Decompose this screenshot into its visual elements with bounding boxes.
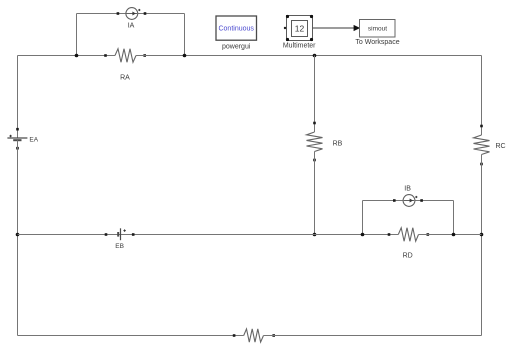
IA plus mark (138, 9, 140, 11)
wire: IA loop right vertical (184, 14, 186, 56)
wire: left rail upper (to EA) (17, 56, 19, 139)
dc voltage source EB (118, 228, 120, 240)
wire: IB loop top left segment (363, 200, 404, 202)
junction: IB loop right on middle rail (452, 233, 456, 237)
label RD (403, 253, 413, 260)
wire: RB branch upper (314, 56, 316, 133)
wire: RB branch lower (314, 152, 316, 235)
svg-text:simout: simout (368, 26, 387, 33)
resistor RD (398, 228, 418, 241)
signal arrowhead (354, 25, 361, 31)
current measurement IA (circle with arrow) (126, 8, 138, 20)
wire: IB loop top right segment (415, 200, 454, 202)
junction: RB branch on top rail (313, 54, 317, 58)
port dot RC bottom (480, 163, 483, 166)
svg-text:RB: RB (333, 140, 343, 147)
wire: IA loop top right segment (138, 13, 185, 15)
multimeter input port dot (284, 27, 286, 29)
label EA (29, 137, 38, 144)
junction: IA loop right on top rail (183, 54, 187, 58)
label EB (115, 243, 124, 250)
port dot IA right (144, 12, 147, 15)
wire: left rail lower (EA to bottom) (17, 140, 19, 335)
multimeter corner handle bottom-right (310, 38, 313, 41)
svg-text:IB: IB (404, 185, 411, 192)
label RB (333, 140, 343, 147)
multimeter corner handle bottom-left (286, 38, 289, 41)
label powergui (222, 43, 251, 50)
port dot IA left (117, 12, 120, 15)
wire: top rail right segment (136, 55, 482, 57)
multimeter block U1 (287, 16, 313, 41)
label Multimeter (283, 42, 316, 49)
junction: middle rail on right rail (480, 233, 484, 237)
wire: top rail left segment (18, 55, 116, 57)
label RA (120, 74, 130, 81)
port dot EA bottom (16, 147, 19, 150)
port dot RB top (313, 122, 316, 125)
signal wire: multimeter to simout (313, 27, 354, 29)
junction: IB loop left on middle rail (361, 233, 365, 237)
wire: bottom rail left segment (18, 335, 244, 337)
svg-text:IA: IA (128, 23, 135, 30)
current measurement IB (circle with arrow) (403, 195, 415, 207)
port dot RE left (233, 334, 236, 337)
wire: bottom rail right segment (264, 335, 482, 337)
EB plus mark (123, 229, 125, 231)
port dot RC top (480, 125, 483, 128)
svg-text:RD: RD (403, 253, 413, 260)
powergui block (216, 16, 257, 40)
port dot RD left (388, 233, 391, 236)
svg-text:EB: EB (115, 243, 124, 250)
port dot RA right (143, 54, 146, 57)
svg-text:To Workspace: To Workspace (355, 39, 399, 46)
port dot EB right (132, 233, 135, 236)
port dot EB left (105, 233, 108, 236)
label RC (495, 143, 505, 150)
dc voltage source EA (7, 138, 27, 140)
EA plus mark (9, 135, 11, 137)
resistor RE (bottom) (244, 329, 264, 342)
label IB (404, 185, 411, 192)
IB plus mark (415, 196, 417, 198)
svg-text:Multimeter: Multimeter (283, 42, 316, 49)
label To Workspace (355, 39, 399, 46)
label IA (128, 23, 135, 30)
wire: IA loop top left segment (77, 13, 127, 15)
port dot RB bottom (313, 159, 316, 162)
wire: IB loop right vertical (453, 201, 455, 235)
resistor RA (115, 49, 136, 63)
junction: RB branch on middle rail (313, 233, 317, 237)
svg-text:powergui: powergui (222, 43, 251, 50)
port dot RA left (104, 54, 107, 57)
svg-text:RA: RA (120, 74, 130, 81)
port dot IB right (420, 199, 423, 202)
resistor RC (474, 135, 490, 155)
wire: middle rail left segment (18, 234, 399, 236)
simout To Workspace block (360, 20, 396, 38)
resistor RB (307, 132, 323, 152)
multimeter corner handle top-right (310, 15, 313, 18)
multimeter corner handle top-left (286, 15, 289, 18)
port dot IB left (393, 199, 396, 202)
wire: right rail upper (to RC) (481, 56, 483, 136)
junction: IA loop left on top rail (75, 54, 79, 58)
port dot RE right (272, 334, 275, 337)
junction: middle rail on left rail (16, 233, 20, 237)
wire: IB loop left vertical (362, 201, 364, 235)
port dot RD right (427, 233, 430, 236)
svg-text:Continuous: Continuous (218, 25, 254, 32)
svg-text:12: 12 (295, 23, 305, 33)
svg-text:RC: RC (495, 143, 505, 150)
wire: middle rail right segment (419, 234, 482, 236)
svg-text:EA: EA (29, 137, 38, 144)
wire: IA loop left vertical (76, 14, 78, 56)
port dot EA top (16, 128, 19, 131)
wire: right rail lower (481, 155, 483, 336)
